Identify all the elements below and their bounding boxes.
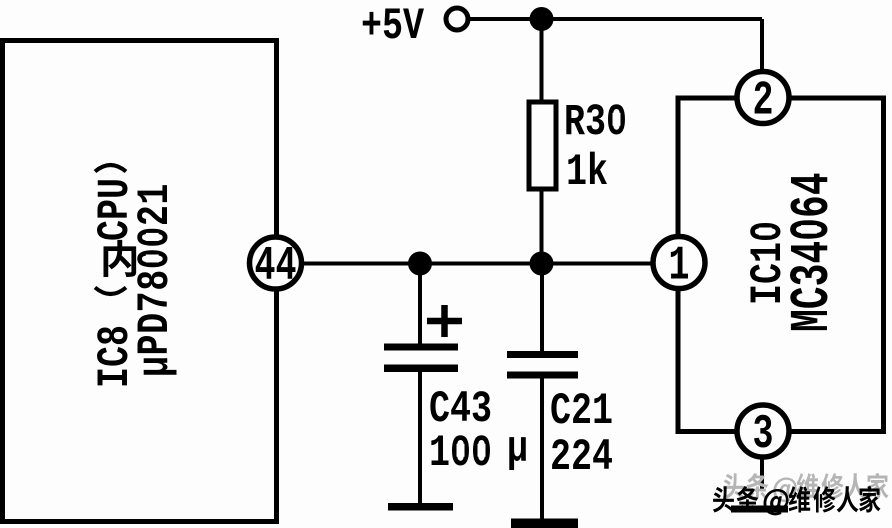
pin 44 of IC8 [250, 237, 302, 294]
ground: C43 [388, 503, 453, 511]
IC10 MC34064 rectangle [678, 98, 884, 432]
capacitor C43 plus sign [427, 305, 462, 337]
svg-text:+5V: +5V [361, 2, 425, 52]
svg-text:44: 44 [255, 239, 297, 294]
R30 designator label [564, 98, 627, 148]
C43 designator label [429, 385, 492, 435]
pin 2 of IC10 [737, 72, 789, 129]
svg-text:3: 3 [752, 407, 773, 462]
wire: pin44 to pin1 main horizontal [276, 262, 678, 266]
R30 value label 1k [566, 148, 608, 198]
C21 designator label [550, 387, 613, 437]
pin 3 of IC10 [737, 405, 789, 462]
wire: C43 top lead [418, 264, 422, 347]
svg-text:2: 2 [752, 73, 773, 128]
capacitor C21 top plate [507, 351, 578, 358]
resistor R30 body [529, 102, 556, 189]
capacitor C43 bottom plate [384, 365, 458, 373]
svg-text:C21: C21 [550, 387, 613, 437]
watermark black "头条@维修人家" [713, 486, 881, 515]
ground: pin 3 [731, 506, 788, 513]
svg-text:MC34064: MC34064 [783, 172, 845, 332]
ground: C21 [511, 519, 578, 528]
svg-text:1: 1 [668, 238, 689, 293]
node: +5V junction [530, 7, 554, 31]
svg-text:C43: C43 [429, 385, 492, 435]
wire: C21 bottom lead [540, 375, 544, 522]
node: C43 junction [408, 252, 432, 276]
wire: R30 vertical branch [540, 19, 544, 264]
wire: +5V rail down to pin2 [760, 19, 764, 98]
svg-text:μ: μ [507, 425, 528, 475]
wire: pin3 to ground [760, 458, 764, 489]
svg-text:μPD780021: μPD780021 [131, 183, 181, 377]
wire: +5V rail horizontal [466, 17, 762, 21]
IC8 label "IC8（内CPU）" (rotated) [91, 165, 141, 388]
IC10 part number MC34064 (rotated) [783, 172, 845, 332]
IC8 (CPU uPD780021) rectangle [3, 41, 277, 522]
svg-text:1k: 1k [566, 148, 608, 198]
IC10 designator label (rotated) [744, 221, 794, 305]
node: R30/C21 junction [530, 252, 554, 276]
svg-text:224: 224 [550, 433, 613, 483]
IC8 label "μPD780021" (rotated) [131, 183, 181, 377]
wire: C21 top lead [540, 264, 544, 354]
capacitor C21 bottom plate [507, 372, 578, 379]
watermark ghost gray "头条@维修人家" [723, 473, 889, 502]
pin 1 of IC10 [653, 237, 705, 294]
C43 value label 100μ [429, 425, 528, 480]
C21 value label 224 [550, 433, 613, 483]
wire: C43 bottom lead [418, 369, 422, 505]
+5V terminal circle [446, 8, 468, 30]
capacitor C43 top plate [384, 344, 458, 351]
+5V label [361, 2, 425, 52]
